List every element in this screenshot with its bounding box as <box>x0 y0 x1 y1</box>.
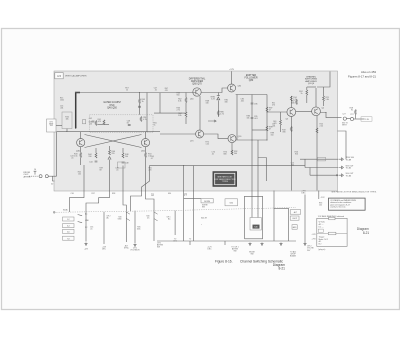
wire lower return <box>338 131 347 159</box>
label lead a <box>71 193 74 195</box>
svg-text:3-4: 3-4 <box>67 226 70 228</box>
resistor R1066 labels <box>177 108 181 112</box>
label under shading x150 <box>151 193 154 197</box>
label under Q1060 <box>206 101 209 105</box>
label S40A <box>63 208 68 211</box>
label R1099 <box>271 133 274 137</box>
resistor R1117 <box>291 100 297 105</box>
circuit-board shaded region <box>54 71 338 191</box>
wire osc lower verticals <box>96 146 123 153</box>
ground left column <box>84 243 89 251</box>
wire x318 drop <box>319 191 326 200</box>
diagram number box <box>55 73 63 79</box>
svg-text:120: 120 <box>89 123 92 125</box>
label +12V right col <box>312 234 317 240</box>
svg-text:100k: 100k <box>137 228 141 230</box>
wire output run 2 <box>305 167 339 169</box>
designator Q1070 <box>190 141 194 143</box>
label C1047 <box>154 88 157 92</box>
resistor R1051 <box>140 117 147 122</box>
svg-text:SW: SW <box>157 247 160 249</box>
svg-text:.01: .01 <box>116 169 118 171</box>
wire pair left <box>251 140 253 218</box>
reference note box <box>329 198 366 210</box>
wire Q1050 emitter drop <box>145 147 147 165</box>
label lead b <box>92 193 95 195</box>
svg-text:+: + <box>201 224 202 226</box>
svg-text:100: 100 <box>125 156 128 158</box>
svg-text:4.7k: 4.7k <box>220 114 224 116</box>
label R1083 <box>247 116 250 120</box>
resistor R1098 <box>266 126 272 131</box>
ground mid column <box>130 244 140 252</box>
node dot bus-a <box>183 165 184 166</box>
label C1127 P1127 <box>342 114 353 117</box>
label C1074 <box>212 152 215 156</box>
svg-text:10k: 10k <box>247 118 250 120</box>
wire Q1123 emitter drop <box>316 116 318 191</box>
label beside x154 <box>146 216 150 220</box>
svg-text:C36: C36 <box>71 193 74 195</box>
svg-text:470: 470 <box>272 104 275 106</box>
wire run2 tap <box>305 159 310 175</box>
svg-text:10k: 10k <box>319 204 322 206</box>
wire osc cross 2 <box>85 135 142 148</box>
page reference Diagram <box>357 227 369 231</box>
svg-text:50: 50 <box>51 184 53 186</box>
wire drop x84 jog <box>70 191 85 212</box>
wire Q1050 collector <box>145 132 147 139</box>
connector arrow 1 <box>339 158 343 161</box>
resistor R1041 <box>98 119 110 125</box>
svg-text:220: 220 <box>149 169 152 171</box>
resistor R1123b <box>323 96 329 101</box>
svg-text:.01: .01 <box>155 89 157 91</box>
wire Q1070 to Q1090 <box>204 134 228 139</box>
wire ladder vertical 1 <box>236 95 238 141</box>
svg-text:.001: .001 <box>241 101 245 103</box>
node dot ladder <box>266 111 267 112</box>
wire connector box stub <box>56 125 62 127</box>
resistor R1045 vertical <box>139 99 145 104</box>
svg-text:B 2: B 2 <box>319 244 322 246</box>
connector J301 <box>39 175 42 178</box>
label left of box B <box>202 205 208 209</box>
svg-text:2.7k: 2.7k <box>177 110 181 112</box>
svg-text:Q3 Q4: Q3 Q4 <box>308 83 315 85</box>
svg-text:1k: 1k <box>301 93 303 95</box>
node dot rail1 <box>139 92 140 93</box>
label box B <box>225 199 238 206</box>
svg-text:K40: K40 <box>254 227 257 229</box>
resistor R1056 stack <box>89 121 97 126</box>
oscillator dashed box <box>90 115 154 133</box>
label R1015 <box>60 98 64 102</box>
svg-text:SW: SW <box>234 251 237 253</box>
svg-text:1k: 1k <box>154 124 156 126</box>
transistor Q1080 <box>228 84 236 92</box>
svg-text:C44: C44 <box>89 162 92 164</box>
svg-text:DEC: DEC <box>208 249 213 251</box>
label beside x175 <box>167 217 172 221</box>
wire R1128 drop <box>354 115 356 119</box>
wire drop x145 <box>146 191 155 241</box>
svg-text:1k: 1k <box>126 89 128 91</box>
resistor R1114 <box>290 96 296 101</box>
wire input to board <box>48 175 56 177</box>
transistor Q1050 <box>141 139 150 153</box>
svg-text:2.2k: 2.2k <box>320 126 324 128</box>
svg-text:SW: SW <box>251 254 254 256</box>
label R1074 stack <box>224 152 227 156</box>
svg-text:Q3: Q3 <box>286 119 288 121</box>
svg-text:.001: .001 <box>272 125 275 127</box>
label bus drop 4 <box>290 251 297 258</box>
label EMITTER FOLLOWER <box>244 75 257 82</box>
svg-text:Q80: Q80 <box>238 86 242 88</box>
wire R1101 drop <box>280 112 282 132</box>
label x175 bottom <box>173 239 177 243</box>
svg-text:91: 91 <box>351 110 353 112</box>
svg-text:TO A6: TO A6 <box>346 174 351 177</box>
svg-text:100k: 100k <box>60 99 64 101</box>
svg-text:68: 68 <box>100 169 102 171</box>
svg-text:.001: .001 <box>254 118 258 120</box>
contact circle left <box>53 211 55 213</box>
svg-text:4.7: 4.7 <box>151 158 153 160</box>
zener VR1085 <box>210 96 219 101</box>
power label -12V right <box>301 191 306 195</box>
resistor R1086 <box>217 111 223 116</box>
label R1111 feed <box>272 103 275 107</box>
wire Q1090 emitter drop <box>231 143 233 154</box>
power tap +12V <box>229 69 234 71</box>
svg-text:Figures 8-17 and 8-21: Figures 8-17 and 8-21 <box>348 74 376 78</box>
label volts/div right <box>307 246 314 252</box>
input connector box <box>47 119 57 132</box>
label under shading x183 <box>184 193 187 197</box>
svg-text:220: 220 <box>112 153 115 155</box>
switch column labels <box>85 212 90 229</box>
ground right column <box>303 243 306 246</box>
label R1133 <box>319 203 322 207</box>
label C1045 corner <box>151 156 154 160</box>
label R1118 stack <box>282 130 285 134</box>
label R1081 <box>225 100 228 104</box>
wire drop x107 <box>103 212 105 244</box>
svg-text:5-6: 5-6 <box>67 232 70 234</box>
svg-text:S40A: S40A <box>63 208 68 211</box>
wire ladder top rail <box>236 94 267 96</box>
svg-text:470: 470 <box>165 90 168 92</box>
wire osc mid rail <box>66 131 160 133</box>
svg-text:560: 560 <box>234 153 237 155</box>
resistor R1043 stack <box>74 153 82 158</box>
wire rail tap x147 <box>146 93 148 132</box>
heavy feedback wire <box>76 93 80 129</box>
svg-text:10: 10 <box>34 169 36 171</box>
capacitor C1042 <box>89 118 95 122</box>
label R1125 stack <box>320 124 324 128</box>
label sw mark <box>201 224 202 226</box>
connector arrow 2 <box>339 166 343 169</box>
capacitor C1045 <box>138 106 141 107</box>
wire osc bottom drops <box>84 160 146 191</box>
label lead d <box>168 193 171 195</box>
resistor R1124 <box>299 90 308 95</box>
table heading <box>318 215 344 218</box>
svg-text:BLANK: BLANK <box>290 255 297 258</box>
svg-text:-12V: -12V <box>84 249 89 251</box>
capacitor C1044 <box>89 161 97 164</box>
svg-text:910: 910 <box>295 154 298 156</box>
switch linkage dashed <box>54 208 296 213</box>
table caption <box>318 249 325 251</box>
svg-text:+12V: +12V <box>229 69 234 71</box>
wire drop x135 <box>134 211 136 243</box>
wire Q1123 output <box>320 113 341 118</box>
wire +75 drop <box>304 195 306 243</box>
wire relay mid vertical <box>0 0 1 1</box>
switch wafer contact 2 <box>63 224 75 228</box>
wire ladder bottom rail <box>236 130 267 140</box>
svg-text:130: 130 <box>206 103 209 105</box>
wire ladder vertical 2 <box>251 95 253 141</box>
relay loop outer <box>245 196 263 239</box>
delay box small <box>118 162 126 168</box>
svg-text:C42: C42 <box>89 118 92 120</box>
svg-text:TO DL: TO DL <box>364 119 369 121</box>
svg-text:680: 680 <box>291 103 294 105</box>
resistor R1063 labels <box>177 93 180 97</box>
capacitor C1048m <box>127 120 131 125</box>
wire pair right <box>258 140 266 218</box>
svg-text:VERTICAL AMPLIFIER: VERTICAL AMPLIFIER <box>65 75 87 78</box>
wire bottom bus <box>157 240 296 242</box>
wire Q1123 collector up <box>315 88 317 107</box>
relay inner box <box>250 218 261 231</box>
svg-text:NORM: NORM <box>204 201 210 203</box>
label C1016 <box>60 106 63 110</box>
svg-text:390: 390 <box>282 132 285 134</box>
svg-text:82: 82 <box>127 122 129 124</box>
figure caption page no <box>278 267 285 271</box>
svg-text:Q60 Q70: Q60 Q70 <box>192 84 202 86</box>
wire C-column <box>183 166 185 241</box>
wire Q1113 emitter drop <box>290 116 292 190</box>
node arrow mid <box>208 120 216 122</box>
svg-text:47: 47 <box>269 110 271 112</box>
wire osc cross 1 <box>85 135 142 148</box>
wire Q1070 base lead <box>160 133 196 135</box>
label beside x126 <box>118 217 123 221</box>
label R1055 <box>154 122 157 126</box>
label bus drop 1 <box>207 247 212 251</box>
svg-text:DC —: DC — <box>319 227 324 229</box>
switch stack right 3 <box>292 225 297 230</box>
wire Q1040 emitter drop <box>80 147 82 165</box>
label output 3 <box>346 173 355 177</box>
svg-text:8-21: 8-21 <box>278 267 285 271</box>
svg-text:Q70: Q70 <box>190 141 194 143</box>
wire bus risers <box>190 241 283 246</box>
input label CH2 INPUT <box>24 172 31 179</box>
svg-text:1.5k: 1.5k <box>74 156 78 158</box>
capacitor C301 <box>34 169 37 174</box>
resistor R1097 <box>266 107 272 112</box>
bias box R1016 <box>62 112 72 129</box>
resistor R1046 <box>109 150 115 155</box>
wire drop x109 jog <box>86 191 110 242</box>
label DIFFERENTIAL AMPLIFIER <box>189 78 206 86</box>
label R1126 stack <box>295 152 298 156</box>
svg-text:7-8: 7-8 <box>67 238 70 240</box>
label x154 bottom <box>157 243 164 249</box>
resistor R1053 stack <box>145 153 152 158</box>
svg-text:150: 150 <box>271 135 274 137</box>
svg-text:DEC: DEC <box>301 193 306 195</box>
label beside x107 <box>107 216 111 220</box>
connector arrow 3 <box>336 174 343 177</box>
svg-text:R37: R37 <box>92 193 95 195</box>
label GATED 10-MHZ OSC <box>103 101 121 109</box>
label sw line <box>201 217 208 219</box>
capacitor C1096 <box>251 103 258 106</box>
label bus drop 2 <box>231 247 238 253</box>
designator Q1113 <box>286 119 288 121</box>
svg-text:CHOP: CHOP <box>292 218 298 220</box>
label lead c <box>112 193 115 195</box>
connector J302 <box>45 175 48 178</box>
footnote line <box>331 191 377 194</box>
wire drop x193 <box>192 166 194 241</box>
svg-text:Q60: Q60 <box>190 99 194 101</box>
wire ladder vertical 3 <box>266 95 268 141</box>
resistor R1101 col <box>273 120 281 125</box>
switch contact x126 <box>126 212 130 221</box>
svg-text:ATTEN: ATTEN <box>24 175 31 178</box>
resistor R1047 <box>165 88 168 92</box>
input coupling wire <box>29 175 39 177</box>
resistor R1062 <box>178 98 187 103</box>
label C1115 <box>291 163 294 167</box>
svg-text:TO A5: TO A5 <box>346 167 351 170</box>
svg-text:.01: .01 <box>90 228 92 230</box>
svg-text:.01: .01 <box>212 154 215 156</box>
svg-text:910: 910 <box>177 95 180 97</box>
connector P1127 <box>350 117 353 120</box>
svg-text:P27: P27 <box>350 114 353 116</box>
capacitor C1127 <box>343 117 346 120</box>
svg-text:4.7k: 4.7k <box>143 119 146 121</box>
voltage conditions table <box>317 217 347 246</box>
node dot rail2 <box>75 92 76 93</box>
node dot out <box>325 112 326 113</box>
designator Q1090 <box>238 136 242 138</box>
crystal Y1040 <box>83 120 86 124</box>
label C1082 <box>241 99 245 103</box>
wire R1123b drop <box>323 87 325 106</box>
switch arrow contact <box>78 215 83 223</box>
svg-text:S40: S40 <box>229 202 232 204</box>
resistor R1131 inline <box>318 157 326 161</box>
transistor Q1070 <box>196 130 204 138</box>
svg-text:C48: C48 <box>125 163 128 165</box>
svg-text:S30: S30 <box>168 193 171 195</box>
wire bias box stub <box>57 129 68 132</box>
svg-text:CH 1: CH 1 <box>173 240 177 242</box>
wire feedback bus <box>131 166 306 211</box>
label output dest <box>361 117 372 121</box>
wire drop x123 <box>123 191 126 242</box>
wire delay-line tap <box>346 118 364 120</box>
svg-text:10k: 10k <box>78 173 81 175</box>
switch stack right 1 <box>290 210 301 215</box>
svg-text:TYPES: TYPES <box>222 181 229 183</box>
transistor Q1123 <box>312 107 321 116</box>
resistor R1092 <box>231 150 237 155</box>
svg-text:Figure 8-16.: Figure 8-16. <box>215 260 233 264</box>
wire drop x175 <box>174 211 176 235</box>
switch stack right 2 <box>290 216 299 220</box>
wire base bridge <box>296 110 312 112</box>
svg-text:4-5: 4-5 <box>57 74 61 78</box>
label box A <box>201 199 213 203</box>
designator Q1123 <box>322 108 324 110</box>
label OUTPUT AMPLIFIER <box>305 75 318 85</box>
wire Q1080 collector feed <box>231 71 233 84</box>
svg-text:C96: C96 <box>254 104 257 106</box>
label bus drop 3 <box>249 252 255 256</box>
svg-text:1k: 1k <box>142 101 144 103</box>
relay coil label <box>253 225 260 229</box>
svg-text:.001: .001 <box>60 107 63 109</box>
page reference 8-21 <box>363 231 370 235</box>
resistor x123 labels2 <box>115 168 118 172</box>
resistor x96 labels2 <box>100 168 103 172</box>
wire Q1060 to Q1080 base <box>201 88 227 93</box>
node dot A <box>75 127 76 128</box>
resistor R1048 <box>122 153 128 158</box>
right loop <box>274 191 289 242</box>
designator Q1080 <box>238 86 242 88</box>
designator Q1060 <box>190 99 194 101</box>
svg-text:SYNC: SYNC <box>124 247 130 249</box>
label R1072 stack <box>206 142 210 146</box>
node dot ladder-c <box>266 139 267 140</box>
transistor Q1060 <box>193 88 201 96</box>
svg-text:3.3k: 3.3k <box>178 101 182 103</box>
diode CR1046 <box>108 157 111 160</box>
svg-text:Q40 Q50: Q40 Q50 <box>107 106 117 109</box>
svg-text:4.7: 4.7 <box>184 195 186 197</box>
wire box A link <box>184 198 201 200</box>
svg-text:1.8k: 1.8k <box>178 115 182 117</box>
resistor R1128 <box>350 108 357 115</box>
resistor x145 labels2 <box>149 168 152 172</box>
label output 2 <box>346 166 355 170</box>
svg-text:470: 470 <box>98 121 101 123</box>
wire zener column <box>217 93 219 118</box>
label x145 midcol <box>137 227 141 231</box>
wire +12 tap right <box>317 72 330 88</box>
node dot ladder-b <box>251 139 252 140</box>
label under P27 <box>342 123 349 127</box>
wire oscillator rail <box>76 92 197 94</box>
label C1111 <box>272 124 275 128</box>
wire rail tap x160 <box>159 93 161 113</box>
wire Q1040 collector <box>80 132 82 139</box>
